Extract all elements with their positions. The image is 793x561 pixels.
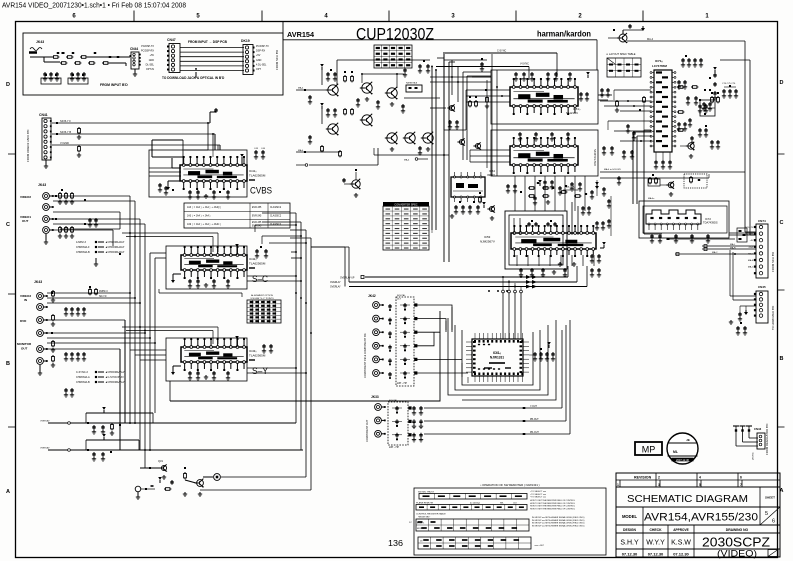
wire IC72 outputs to CN74 bbox=[667, 233, 757, 256]
svg-text:DK19: DK19 bbox=[241, 39, 250, 43]
capacitors below IC53 right bbox=[558, 254, 601, 277]
svg-text:SD B-Y F: SD B-Y F bbox=[60, 119, 71, 123]
svg-text:TLA62565M: TLA62565M bbox=[249, 354, 266, 358]
svg-text:• xxx = SET: • xxx = SET bbox=[534, 545, 545, 547]
svg-text:SCHEMATIC DIAGRAM: SCHEMATIC DIAGRAM bbox=[627, 494, 748, 505]
svg-text:TO HDMI MA∗ B'D: TO HDMI MA∗ B'D bbox=[771, 306, 775, 330]
wire CN41 riser to CVBS bbox=[210, 108, 220, 150]
capacitors right of IC61 bbox=[529, 180, 599, 361]
wire risers CVBS top to CN41 lines bbox=[184, 122, 218, 157]
svg-text:IN GROUP xxx SET A HIGHER SIGN: IN GROUP xxx SET A HIGHER SIGNAL LEVEL (… bbox=[532, 522, 585, 525]
svg-text:5: 5 bbox=[699, 483, 701, 487]
approval stamp circle bbox=[667, 433, 698, 464]
capacitor cluster below CN45 bbox=[729, 320, 747, 335]
svg-text:V-SYNC: V-SYNC bbox=[520, 63, 529, 66]
capacitor cluster C7x right bbox=[722, 83, 738, 98]
svg-text:CN47: CN47 bbox=[167, 38, 176, 42]
svg-text:S–Y: S–Y bbox=[252, 366, 268, 376]
svg-text:LC74765M: LC74765M bbox=[652, 64, 667, 68]
svg-text:B: B bbox=[780, 356, 784, 362]
wire component-out Pb bbox=[424, 325, 566, 422]
svg-text:PR-OUT: PR-OUT bbox=[530, 432, 539, 434]
capacitor row above IC52 bbox=[518, 132, 570, 141]
svg-text:◄CHROMA/PLAY: ◄CHROMA/PLAY bbox=[105, 381, 126, 384]
jack DVD bbox=[20, 317, 48, 337]
svg-text:JE: JE bbox=[686, 438, 690, 442]
svg-text:CONVERTER SPEC: CONVERTER SPEC bbox=[394, 204, 417, 207]
enclosure box IC52 section bbox=[491, 130, 598, 176]
svg-text:NJW1331: NJW1331 bbox=[490, 356, 504, 360]
op IC43 TLA62565M (S-Y) bbox=[181, 338, 247, 371]
transistor bank left of IC51 box bbox=[430, 60, 491, 150]
svg-text:◄C-SYNC/PLAY: ◄C-SYNC/PLAY bbox=[105, 376, 124, 379]
capacitors right of IC51 bbox=[579, 72, 619, 112]
vertical text TO HDMI MAX B'D bbox=[771, 306, 775, 330]
svg-text:D0: D0 bbox=[420, 540, 422, 542]
svg-text:• TO SELECT xxx: • TO SELECT xxx bbox=[530, 494, 546, 496]
junction dots IC51 bus bbox=[485, 86, 503, 97]
svg-text:6: 6 bbox=[740, 476, 742, 480]
notes row PLANE REMOTE bbox=[416, 500, 575, 510]
wire component-out Y bbox=[424, 330, 562, 409]
transistor Q45 mid bbox=[342, 169, 361, 197]
svg-text:DESIGN: DESIGN bbox=[623, 528, 637, 532]
svg-text:AVR154 VIDEO_20071230•1.sch•1: AVR154 VIDEO_20071230•1.sch•1 • Fri Feb … bbox=[2, 1, 186, 10]
connector JK43 video jacks lower bbox=[34, 280, 42, 284]
svg-text:FROM REGULATOR B'D: FROM REGULATOR B'D bbox=[765, 424, 769, 455]
power arrow IC42 bbox=[235, 244, 239, 255]
capacitor row above IC53 bbox=[514, 218, 557, 235]
svg-text:PC/DSP-TX: PC/DSP-TX bbox=[141, 45, 154, 48]
capacitor cluster lower-left 2 bbox=[87, 449, 112, 461]
vertical bus left of IC51/IC52 bbox=[444, 54, 497, 176]
dashed option box right of Q-amp bbox=[684, 174, 707, 188]
svg-text:IC42₍₎: IC42₍₎ bbox=[249, 257, 257, 261]
box MP mark bbox=[635, 442, 662, 455]
svg-text:OUT: OUT bbox=[21, 347, 28, 351]
title block schematic diagram row bbox=[616, 487, 780, 507]
svg-text:GND: GND bbox=[149, 59, 155, 62]
svg-text:(to identify): (to identify) bbox=[470, 501, 480, 504]
svg-text:Y-OUT: Y-OUT bbox=[530, 406, 538, 408]
junction dots on overlay bus bbox=[502, 276, 522, 287]
label IC51 bbox=[566, 107, 581, 115]
svg-text:A: A bbox=[6, 489, 10, 495]
svg-text:FROM INPUT B'D: FROM INPUT B'D bbox=[100, 83, 128, 87]
svg-text:GND: GND bbox=[749, 247, 754, 249]
svg-text:+5V: +5V bbox=[150, 54, 155, 57]
capacitors right of IC42 bbox=[255, 246, 268, 258]
svg-text:◄CHROMA-DLP: ◄CHROMA-DLP bbox=[105, 241, 125, 244]
svg-text:CHROMA-F: CHROMA-F bbox=[76, 246, 90, 249]
capacitor row below DVD bbox=[64, 352, 86, 361]
capacitor scatter top-middle bbox=[403, 58, 489, 108]
signal labels CHROMA PLAY rows bbox=[64, 371, 126, 397]
text FROM INPUT B'D bbox=[100, 83, 128, 87]
svg-text:IN GROUP xxx SET A HIGHER SIGN: IN GROUP xxx SET A HIGHER SIGNAL LEVEL (… bbox=[532, 516, 585, 519]
op IC51 TA1219N (video switch 1) bbox=[510, 78, 578, 115]
resistor cluster at VIDEO1 OUT bbox=[58, 226, 74, 238]
svg-text:CHROMA-B: CHROMA-B bbox=[76, 251, 90, 254]
label IC72 bbox=[703, 217, 718, 225]
title block signature row bbox=[616, 533, 780, 550]
resistor pairs at lower jacks bbox=[51, 290, 55, 367]
svg-text:HOW TO SET THE REMOTER FIELD O: HOW TO SET THE REMOTER FIELD OF CONTROL bbox=[530, 508, 575, 510]
svg-text:4: 4 bbox=[699, 476, 701, 480]
svg-text:JA3❲ = JA4❳ + JA4❳: JA3❲ = JA4❳ + JA4❳ bbox=[187, 215, 211, 218]
svg-text:TLA62565M: TLA62565M bbox=[249, 174, 266, 178]
notes table title bbox=[480, 483, 539, 487]
component scatter above IC53 bbox=[506, 182, 562, 197]
svg-text:D: D bbox=[6, 82, 10, 88]
svg-text:DRAWING NO: DRAWING NO bbox=[726, 528, 749, 532]
wires left of IC71 bbox=[608, 90, 651, 141]
svg-text:+5V: +5V bbox=[256, 54, 261, 57]
svg-text:CHROMA-A: CHROMA-A bbox=[76, 376, 90, 379]
power arrow IC53 bbox=[600, 242, 606, 248]
vertical text COMPONENT IN2 and IN1 bbox=[364, 333, 367, 378]
svg-text:2: 2 bbox=[658, 476, 660, 480]
svg-text:AVR154: AVR154 bbox=[287, 30, 315, 39]
wires VIDEO3 group to bus bbox=[47, 293, 140, 303]
svg-text:JK43: JK43 bbox=[36, 40, 44, 44]
wires CVBS top entries bbox=[149, 140, 184, 176]
wire OVERLAY lower 2 bbox=[40, 434, 303, 451]
svg-text:VI GND: VI GND bbox=[60, 141, 69, 145]
enclosure box S-Y section bbox=[166, 338, 247, 381]
capacitors right of IC53 box bbox=[572, 202, 605, 235]
svg-text:SD B-Y B: SD B-Y B bbox=[60, 130, 71, 134]
wires VIDEO2 to CVBS bbox=[53, 196, 135, 229]
svg-text:R/G PAL: R/G PAL bbox=[389, 399, 398, 402]
svg-text:CLASSIC2: CLASSIC2 bbox=[270, 215, 282, 218]
svg-text:MA-4: MA-4 bbox=[298, 149, 304, 152]
wire MA-4 top right bbox=[627, 38, 756, 235]
wire bus IC71 down bbox=[633, 130, 662, 234]
junction dots QFP bus bbox=[488, 290, 508, 292]
svg-text:DVD: DVD bbox=[20, 319, 27, 323]
svg-text:REVISION: REVISION bbox=[634, 476, 652, 480]
connector CN74 bbox=[754, 219, 768, 278]
vertical text FROM SCU B'D (top-left box) bbox=[275, 50, 279, 70]
label IC54 bbox=[487, 169, 495, 177]
svg-text:PB-OUT: PB-OUT bbox=[530, 419, 539, 421]
capacitor cluster below-left of IC41 bbox=[158, 183, 174, 195]
right border row letters bbox=[778, 80, 785, 494]
capacitor row below VIDEO3 bbox=[64, 307, 86, 316]
enclosure box CVBS section bbox=[149, 150, 247, 197]
svg-text:PC/DSP-TX: PC/DSP-TX bbox=[256, 45, 269, 48]
wire OVERLAY-BUS 2 bbox=[330, 280, 577, 284]
svg-text:EVR-155: EVR-155 bbox=[252, 222, 262, 224]
svg-text:PC/DSP-RX: PC/DSP-RX bbox=[141, 50, 154, 53]
svg-text:•MODE SEL•: •MODE SEL• bbox=[418, 517, 430, 519]
svg-text:FROM SCU B'D: FROM SCU B'D bbox=[771, 252, 775, 272]
tiny signal labels left of CN47 bbox=[141, 45, 155, 71]
capacitor cluster right-top of IC71 bbox=[681, 55, 703, 67]
svg-text:OVERLAY-UP: OVERLAY-UP bbox=[340, 276, 355, 279]
text AVR154 bbox=[287, 30, 315, 39]
svg-text:TDA7439DS: TDA7439DS bbox=[703, 221, 718, 225]
wires upper right region bbox=[600, 168, 745, 236]
vertical text FROM VIDEO3 JACK B'D bbox=[26, 130, 30, 162]
wires bus into QFP from top bbox=[502, 277, 523, 339]
svg-text:JK43: JK43 bbox=[38, 183, 46, 187]
svg-text:MA-4: MA-4 bbox=[647, 38, 654, 41]
svg-text:(XXXX): (XXXX) bbox=[753, 452, 755, 460]
svg-text:CN43: CN43 bbox=[754, 427, 762, 431]
text TO DOWNLOAD JACK and OPTICAL IN B'D bbox=[162, 76, 225, 80]
stub MA-4 mid bbox=[404, 158, 428, 162]
svg-text:C-SYNC-3: C-SYNC-3 bbox=[76, 371, 88, 374]
svg-text:IC52 TA1219N: IC52 TA1219N bbox=[593, 149, 597, 166]
svg-text:22P→HP: 22P→HP bbox=[397, 382, 407, 385]
wire component-out Pr bbox=[424, 320, 570, 435]
op IC41 TLA62565M (CVBS driver) bbox=[180, 156, 247, 190]
notes grid MODE2 bbox=[418, 537, 545, 549]
wires into CN45 bbox=[730, 250, 756, 321]
transistor Q31 bbox=[140, 459, 167, 479]
svg-text:VIDEO2: VIDEO2 bbox=[20, 195, 31, 199]
top-left interface box outline bbox=[23, 33, 283, 95]
jack VIDEO3 IN bbox=[20, 293, 48, 311]
notes grid MODE1 bbox=[409, 516, 585, 531]
svg-text:D: D bbox=[780, 80, 784, 86]
svg-text:RA RB RA B: RA RB RA B bbox=[406, 82, 418, 85]
jack VIDEO1 OUT bbox=[20, 215, 54, 244]
vertical wire pair x463 bbox=[463, 72, 491, 160]
svg-text:TLA62565M: TLA62565M bbox=[249, 262, 266, 266]
connector JK42 component in bbox=[368, 294, 376, 298]
transistor Q55 bbox=[479, 192, 496, 220]
svg-text:• TO SELECT xxx: • TO SELECT xxx bbox=[530, 497, 546, 499]
vertical risers overlay left ends bbox=[311, 247, 349, 287]
ground S-C left bbox=[171, 274, 181, 283]
component scatter between IC52 and IC53 bbox=[533, 180, 587, 205]
svg-text:EVR-245: EVR-245 bbox=[252, 226, 262, 228]
capacitor row above IC51 bbox=[514, 72, 572, 81]
label IC71 LC74765M bbox=[652, 59, 667, 68]
svg-text:07.12.30: 07.12.30 bbox=[673, 552, 689, 557]
svg-text:OPT-IN: OPT-IN bbox=[146, 68, 154, 71]
resistor cluster right of IC71 bbox=[677, 86, 706, 146]
op IC42 TLA62565M (S-C) bbox=[181, 246, 247, 279]
transistor Q73 bbox=[660, 181, 675, 196]
svg-text:OVERLAY: OVERLAY bbox=[40, 420, 50, 423]
svg-text:7: 7 bbox=[740, 483, 742, 487]
junction dots center bus bbox=[129, 292, 312, 344]
svg-text:HOW TO SET THE REMOTER FIELD O: HOW TO SET THE REMOTER FIELD OF CONTROL bbox=[530, 500, 575, 502]
vertical wire pair x444 bbox=[437, 58, 455, 262]
svg-text:MODEL: MODEL bbox=[622, 514, 638, 519]
capacitor columns right of IC71 extra bbox=[677, 80, 720, 149]
svg-text:CUP12030Z: CUP12030Z bbox=[356, 25, 434, 44]
svg-text:CVBS: CVBS bbox=[250, 186, 272, 196]
svg-text:MA-R: MA-R bbox=[730, 247, 736, 250]
capacitors below IC54 bbox=[450, 201, 486, 218]
blob scatter near left jacks bbox=[51, 195, 98, 334]
svg-text:CN44: CN44 bbox=[130, 47, 138, 51]
op IC71 LC74765M body bbox=[650, 70, 676, 152]
wires DVD MONITOR group to bus bbox=[47, 320, 155, 450]
svg-text:IN GROUP xxx SET A HIGHER SIGN: IN GROUP xxx SET A HIGHER SIGNAL LEVEL (… bbox=[532, 519, 585, 522]
svg-text:COMPONENT IN2 & COMPONENT IN1: COMPONENT IN2 & COMPONENT IN1 bbox=[364, 333, 367, 378]
svg-text:2007.12.30: 2007.12.30 bbox=[676, 458, 690, 462]
power arrow IC43 bbox=[235, 336, 239, 347]
svg-text:OVERLAY: OVERLAY bbox=[330, 286, 341, 289]
signal labels 4MHZ CHROMA-DLP bbox=[76, 241, 125, 267]
wire segment mid y155 bbox=[374, 148, 449, 156]
capacitor cluster lower-left 1 bbox=[87, 422, 121, 435]
notes row SW SEL TRUST bbox=[418, 491, 546, 499]
enclosure box IC53 section bbox=[505, 211, 567, 269]
svg-text:4MHZ-3: 4MHZ-3 bbox=[99, 290, 108, 293]
svg-text:MA-4 to SCU B'D: MA-4 to SCU B'D bbox=[604, 168, 621, 171]
central vertical bus lines bbox=[262, 213, 311, 490]
capacitors right of IC43 bbox=[262, 344, 273, 353]
svg-text:MA-4: MA-4 bbox=[298, 87, 304, 90]
transistor Q72 below IC71 bbox=[680, 142, 695, 159]
wire runs into S-C top bbox=[122, 232, 218, 252]
svg-text:DSP-RX: DSP-RX bbox=[256, 50, 265, 53]
jack MONITOR OUT bbox=[17, 342, 48, 375]
extra capacitors below S-Y bbox=[188, 371, 230, 380]
svg-text:MA-L: MA-L bbox=[730, 243, 736, 246]
svg-text:ML: ML bbox=[673, 450, 678, 454]
svg-text:TO DOWNLOAD JACK & OPTICAL IN: TO DOWNLOAD JACK & OPTICAL IN B'D bbox=[162, 76, 225, 80]
svg-text:AVR154,AVR155/230: AVR154,AVR155/230 bbox=[644, 512, 758, 524]
wire OVERLAY-BUS 1 bbox=[340, 275, 568, 279]
svg-text:ALIGNMENT OPTION: ALIGNMENT OPTION bbox=[251, 294, 273, 297]
wire OVERLAY-BUS 3 bbox=[330, 266, 587, 289]
connector JK33 component out bbox=[371, 395, 379, 399]
ladder strip component-in buffer (delay line) bbox=[388, 294, 417, 386]
notes table outline bbox=[414, 488, 606, 555]
svg-text:MONITOR: MONITOR bbox=[17, 342, 32, 346]
vertical text COMPONENT OUT bbox=[366, 419, 369, 442]
svg-text:MA-4x: MA-4x bbox=[648, 197, 655, 200]
svg-text:JA9❲ = JA4❳ + JA4❳ + JA4C❳: JA9❲ = JA4❳ + JA4❳ + JA4C❳ bbox=[187, 223, 221, 226]
connector DK19 bbox=[241, 39, 255, 75]
svg-text:B: B bbox=[6, 361, 10, 367]
svg-text:C: C bbox=[6, 222, 10, 228]
wire CN41 VI GND bbox=[52, 141, 220, 157]
svg-text:JK42: JK42 bbox=[368, 294, 376, 298]
title separator line and AVR154 cell bbox=[283, 22, 597, 71]
wires IC51 right to caps bbox=[598, 94, 612, 100]
svg-text:IC43₍₎: IC43₍₎ bbox=[249, 349, 257, 353]
extra capacitors below CVBS bbox=[188, 190, 230, 199]
svg-text:DL-SEL: DL-SEL bbox=[146, 63, 155, 66]
capacitors right of IC52 bbox=[602, 146, 634, 159]
text S-C bbox=[252, 274, 269, 284]
wires into IC52 left bbox=[470, 150, 510, 162]
transistor Q71 (top right) bbox=[608, 24, 645, 43]
op IC72 TDA7439 (hump outline) bbox=[646, 210, 701, 230]
text page number 136 bbox=[388, 538, 403, 548]
svg-text:CLASSIC2: CLASSIC2 bbox=[270, 223, 282, 226]
svg-text:JK43: JK43 bbox=[34, 280, 42, 284]
svg-text:IC71₍₎: IC71₍₎ bbox=[655, 59, 663, 63]
op IC54 (aux video amp) bbox=[451, 172, 485, 202]
svg-text:S.H.Y: S.H.Y bbox=[620, 540, 639, 547]
svg-text:FROM INPUT → DSP PCB: FROM INPUT → DSP PCB bbox=[188, 40, 228, 44]
resistor network on JK43 line bbox=[44, 52, 130, 66]
svg-text:3: 3 bbox=[658, 483, 660, 487]
resistor cluster at VIDEO2 bbox=[58, 189, 74, 204]
connector CN43 bbox=[733, 426, 765, 460]
svg-text:C-SYNC: C-SYNC bbox=[497, 50, 506, 53]
svg-text:CLK: CLK bbox=[513, 502, 518, 504]
wire runs into S-Y top bbox=[122, 326, 218, 344]
svg-text:• TO SELECT xxx: • TO SELECT xxx bbox=[530, 491, 546, 493]
title block model row bbox=[616, 507, 780, 525]
power arrow IC61 bbox=[590, 182, 599, 199]
svg-text:CHROMA-B: CHROMA-B bbox=[76, 381, 90, 384]
svg-text:HOW TO SET THE REMOTER FIELD O: HOW TO SET THE REMOTER FIELD OF CONTROL bbox=[530, 503, 575, 505]
svg-text:OVERLAY: OVERLAY bbox=[40, 447, 50, 450]
extra wires S-C outputs to bus bbox=[247, 275, 307, 374]
svg-text:FROM SCU B'D: FROM SCU B'D bbox=[275, 50, 279, 70]
vertical text FROM SCU B'D (right) bbox=[771, 252, 775, 272]
logo harman/kardon bbox=[537, 30, 591, 39]
vertical wires x432 x436 bbox=[431, 66, 437, 233]
label IC43 TLA62565M bbox=[249, 349, 266, 361]
transistor bank pre-amp (top middle) bbox=[296, 60, 440, 157]
title CUP12030Z bbox=[356, 25, 434, 44]
component IN wire risers into QFP nest bbox=[440, 307, 468, 383]
svg-text:07.12.30: 07.12.30 bbox=[648, 552, 664, 557]
wires left of IC71 extra bbox=[600, 100, 651, 142]
oscillator symbol lower-left bbox=[135, 477, 171, 499]
table converter signal spec bbox=[383, 202, 429, 250]
table JA jumper options bbox=[184, 203, 290, 228]
wire steps S-C input region bbox=[255, 224, 349, 247]
connector JK43 video jacks upper bbox=[38, 183, 46, 187]
table alignment option grid bbox=[247, 294, 281, 323]
svg-text:MA-C: MA-C bbox=[712, 251, 718, 254]
wire corners lower-center bbox=[170, 381, 311, 490]
svg-text:SCU-RX: SCU-RX bbox=[745, 234, 754, 236]
svg-text:OVERLAY: OVERLAY bbox=[330, 281, 341, 284]
svg-text:DLY: DLY bbox=[397, 298, 402, 300]
extra capacitors below S-C bbox=[188, 279, 230, 288]
svg-text:COMPONENT OUT: COMPONENT OUT bbox=[366, 419, 369, 442]
text FROM INPUT to DSP PCB bbox=[188, 40, 228, 44]
svg-text:1: 1 bbox=[617, 483, 619, 487]
svg-text:OUT: OUT bbox=[22, 219, 29, 223]
vertical text FROM REGULATOR B'D bbox=[765, 424, 769, 455]
ground stubs lower-left bbox=[170, 480, 187, 496]
svg-text:4-MHZ-3: 4-MHZ-3 bbox=[76, 241, 86, 244]
svg-text:6: 6 bbox=[772, 519, 775, 525]
title block revision strip bbox=[616, 473, 780, 487]
svg-text:CONTROL REGISTER TABLE: CONTROL REGISTER TABLE bbox=[416, 513, 446, 516]
notes text CONTROL REGISTER bbox=[416, 513, 446, 519]
svg-text:SHEET: SHEET bbox=[765, 496, 775, 500]
svg-text:GND: GND bbox=[256, 59, 262, 62]
connector CN44 bbox=[130, 47, 141, 76]
svg-text:FROM VIDEO3 JACK B'D: FROM VIDEO3 JACK B'D bbox=[26, 130, 30, 162]
capacitor chain top right corner bbox=[700, 67, 717, 116]
transistor Q32 bbox=[184, 467, 205, 496]
svg-text:MA-R: MA-R bbox=[748, 259, 754, 262]
svg-text:MP: MP bbox=[642, 445, 656, 455]
enclosure box IC72 section bbox=[639, 201, 729, 238]
wires into IC51 left bbox=[466, 90, 510, 130]
label IC41 TLA62565M bbox=[249, 169, 266, 181]
svg-text:PLANE REMOTE: PLANE REMOTE bbox=[416, 501, 434, 504]
